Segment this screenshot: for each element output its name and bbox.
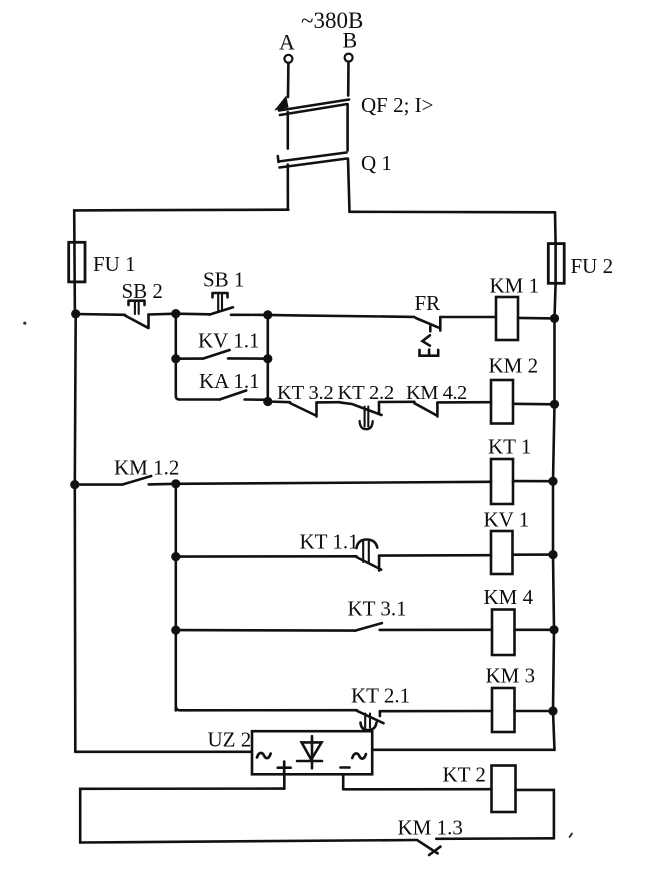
wire bottom bus right xyxy=(436,837,554,840)
wire row6 left xyxy=(176,706,357,710)
svg-text:KT 2.1: KT 2.1 xyxy=(351,684,410,708)
coil KM2 xyxy=(491,380,513,424)
svg-text:KT 3.1: KT 3.1 xyxy=(348,597,407,621)
node junction KT1 row / right rail xyxy=(548,477,557,486)
wire KM1.2 to KT1 xyxy=(176,482,491,484)
svg-text:KM 4.2: KM 4.2 xyxy=(406,382,467,404)
wire right rail (481-554) xyxy=(552,481,555,554)
wire right rail (711-750) xyxy=(553,711,555,750)
wire right rail (630-711) xyxy=(553,630,554,711)
wire minus to KT2 xyxy=(343,788,491,791)
svg-text:KT 2: KT 2 xyxy=(443,763,486,787)
wire KM4 to right rail xyxy=(515,628,555,631)
fuse FU1 xyxy=(69,242,85,282)
wire top bus right xyxy=(350,211,556,214)
svg-text:FR: FR xyxy=(415,291,441,315)
wire row5 left xyxy=(176,629,355,632)
ink speck left margin xyxy=(23,322,26,325)
wire rail1 (313-399) xyxy=(176,314,180,400)
node ~380V label xyxy=(301,8,363,33)
wire rail SB1-right vertical xyxy=(266,315,269,402)
pushbutton SB1 (NO) xyxy=(176,293,268,315)
svg-text:SB 1: SB 1 xyxy=(203,268,244,292)
node junction KM4 row / right rail xyxy=(549,625,558,634)
wire KT1.1 to KV1 xyxy=(379,554,491,557)
contact KT3.2 (NC) xyxy=(290,403,317,417)
contact KT1.1 (NC, on-delay closing) xyxy=(356,540,381,571)
wire UZ2 minus stub xyxy=(342,774,345,789)
svg-text:SB 2: SB 2 xyxy=(122,279,163,303)
contact KM1.2 (NO) xyxy=(122,476,176,485)
svg-text:KV 1.1: KV 1.1 xyxy=(198,329,259,353)
wire Q1 to bus left xyxy=(286,165,289,210)
node junction SB1 right xyxy=(263,310,272,319)
coil KV1 xyxy=(491,531,513,574)
svg-text:KT 3.2: KT 3.2 xyxy=(277,382,334,404)
svg-text:KM 1.3: KM 1.3 xyxy=(398,816,463,840)
ink speck bottom right xyxy=(570,834,573,838)
wire right rail (554-630) xyxy=(553,555,554,630)
wire KM2 to right rail xyxy=(513,402,555,405)
wire left rail middle xyxy=(74,314,77,485)
coil KM1 xyxy=(496,297,518,340)
coil KT1 xyxy=(491,459,513,504)
label ~ left in UZ2 xyxy=(257,753,271,758)
wire KT1 to right rail xyxy=(513,480,553,483)
svg-text:KM 1.2: KM 1.2 xyxy=(114,456,179,480)
contact KM1.3 (NC) xyxy=(417,840,440,855)
label + in UZ2 xyxy=(278,762,291,774)
wire left rail to UZ2 xyxy=(75,750,252,753)
wire KT2.2 to KM4.2 xyxy=(379,400,414,403)
node junction KV1.1 right xyxy=(263,354,272,363)
coil KT2 xyxy=(492,766,516,813)
svg-text:KM 1: KM 1 xyxy=(490,274,540,298)
svg-text:KM 3: KM 3 xyxy=(486,664,536,688)
contact KT3.1 (NO) xyxy=(355,623,492,631)
wire KM1 to right rail xyxy=(518,317,555,320)
wire KT2.1 to KM3 xyxy=(380,710,492,713)
wire phase B down xyxy=(347,62,350,96)
wire QF2 to Q1 right xyxy=(346,105,349,151)
svg-text:QF 2; I>: QF 2; I> xyxy=(361,93,434,117)
svg-text:KT 1.1: KT 1.1 xyxy=(300,530,359,554)
contact KV1.1 (NO) xyxy=(176,350,268,359)
wire row1 left xyxy=(268,315,415,317)
wire right rail (404-481) xyxy=(553,404,555,481)
wire row2 left xyxy=(268,400,290,403)
label ~ right in UZ2 xyxy=(352,753,366,758)
wire top bus left xyxy=(74,208,288,211)
circuit breaker QF2 xyxy=(278,99,350,116)
svg-text:A: A xyxy=(279,30,295,55)
wire KT2 to bottom right corner xyxy=(516,790,554,838)
wire bottom bus left xyxy=(80,840,417,843)
coil KM4 xyxy=(492,610,515,656)
svg-text:Q 1: Q 1 xyxy=(361,151,392,175)
node junction left rail / SB2 row xyxy=(71,309,80,318)
node junction left rail / KM1.2 row xyxy=(70,480,79,489)
node junction rail2 / KT1.1 row xyxy=(171,552,180,561)
wire KV1 to right rail xyxy=(513,553,554,556)
wire row3 left xyxy=(75,483,122,486)
wire right rail (318-404) xyxy=(553,318,556,404)
node junction KM2 row / right rail xyxy=(550,400,559,409)
wire FR to KM1 xyxy=(440,316,496,319)
node junction KV1 row / right rail xyxy=(548,550,557,559)
svg-text:B: B xyxy=(343,28,358,53)
svg-text:KM 4: KM 4 xyxy=(484,585,534,609)
node A xyxy=(279,30,295,63)
svg-text:KV 1: KV 1 xyxy=(484,508,530,532)
wire right rail upper xyxy=(555,212,556,318)
wire rail2 xyxy=(175,484,178,711)
contact KT2.1 (NC, off-delay opening) xyxy=(357,711,384,730)
node junction rail1 / KV1.1 row xyxy=(171,354,180,363)
contact FR (NC thermal) xyxy=(416,317,441,331)
wire left rail lower xyxy=(74,485,77,752)
pushbutton SB2 (NC) xyxy=(76,301,176,328)
svg-text:FU 2: FU 2 xyxy=(571,254,614,278)
wire UZ2 to right rail xyxy=(372,748,554,751)
node B xyxy=(343,28,358,62)
wire phase A down xyxy=(287,63,290,97)
coil KM3 xyxy=(492,688,515,732)
node junction KM3 row / right rail xyxy=(548,706,557,715)
svg-text:KM 2: KM 2 xyxy=(489,354,539,378)
wire Q1 to bus right xyxy=(348,159,350,212)
thermal element symbol FR xyxy=(420,326,439,356)
wire KM3 to right rail xyxy=(515,710,554,713)
fuse FU2 xyxy=(548,244,564,284)
svg-text:FU 1: FU 1 xyxy=(93,252,136,276)
box UZ2 xyxy=(252,731,372,774)
node junction rail2 / KT3.1 row xyxy=(171,626,180,635)
wire UZ2 plus stub xyxy=(283,774,286,788)
svg-text:KA 1.1: KA 1.1 xyxy=(199,369,260,393)
contact KT2.2 (NC, time delay) xyxy=(340,402,382,429)
svg-text:UZ 2: UZ 2 xyxy=(208,728,252,752)
diode inside UZ2 xyxy=(297,736,322,768)
svg-text:KT 1: KT 1 xyxy=(488,435,531,459)
label - in UZ2 xyxy=(341,766,350,769)
wire QF2 to Q1 left xyxy=(286,112,289,149)
node junction rail1 top xyxy=(171,309,180,318)
node junction rail2 top xyxy=(171,479,180,488)
contact KM4.2 (NC) xyxy=(414,403,437,416)
switch Q1 xyxy=(278,153,347,168)
node junction KM1 row / right rail xyxy=(550,314,559,323)
wire plus to bottom left xyxy=(80,789,284,843)
node junction KA1.1 right xyxy=(263,397,272,406)
wire left rail upper xyxy=(73,210,76,314)
wire KM4.2 to KM2 xyxy=(437,401,491,404)
contact KA1.1 (NO) xyxy=(180,391,268,400)
wire row4 left xyxy=(176,555,357,558)
wire KT3.2 to KT2.2 xyxy=(317,401,340,404)
